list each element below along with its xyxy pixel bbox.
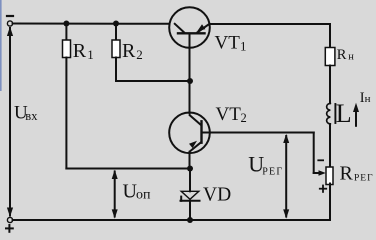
Uvx arrowhead down: [7, 208, 13, 217]
In arrowhead: [353, 103, 359, 112]
input terminal top: [7, 21, 12, 26]
transistor VT2: [169, 113, 210, 154]
wire VT2 emitter down: [189, 152, 191, 169]
node VT1 base junction: [187, 78, 193, 84]
svg-text:VT: VT: [216, 104, 242, 125]
Ureg arrowhead up: [283, 134, 289, 143]
wire VD cathode lead: [189, 201, 191, 220]
blue window-edge line: [0, 0, 2, 91]
svg-text:2: 2: [241, 111, 247, 125]
input terminal bottom: [7, 217, 12, 222]
svg-text:н: н: [365, 93, 371, 105]
wire R2 bottom lead: [115, 58, 117, 82]
wire top rail: [13, 23, 170, 25]
inductor L coil: [327, 103, 331, 124]
zener diode VD: [181, 191, 200, 201]
Ureg voltage arrow line: [285, 136, 287, 217]
inductor core bar: [334, 104, 336, 123]
plus sign Rreg: [320, 188, 326, 190]
wire wiper down leg: [313, 133, 315, 174]
Ureg arrowhead down: [283, 209, 289, 218]
wire R1 bottom lead: [65, 58, 67, 169]
wire VD anode lead: [189, 169, 191, 192]
svg-text:VT: VT: [215, 32, 241, 53]
node R2 top: [113, 21, 119, 27]
svg-text:оп: оп: [136, 188, 151, 203]
svg-text:R: R: [337, 47, 347, 63]
svg-text:R: R: [73, 40, 87, 62]
svg-text:R: R: [122, 40, 136, 62]
Uvx arrowhead up: [7, 27, 13, 36]
svg-text:VD: VD: [203, 185, 231, 206]
wire VT1 base to VT2 collector: [189, 81, 191, 114]
wire VT2 base to wiper: [210, 132, 314, 134]
Uop arrowhead up: [112, 170, 118, 179]
svg-text:L: L: [336, 99, 352, 128]
svg-text:РЕГ: РЕГ: [262, 167, 283, 178]
wire VT1 emitter to right: [210, 23, 330, 25]
In current arrow: [355, 107, 357, 126]
svg-text:1: 1: [240, 39, 247, 54]
wiper arrow line: [314, 172, 320, 174]
svg-text:н: н: [348, 52, 354, 63]
resistor R1: [63, 40, 71, 58]
resistor RH: [325, 48, 335, 66]
wire right branch down to RH: [329, 24, 331, 48]
wiper arrowhead: [319, 170, 326, 176]
minus sign Rreg: [318, 159, 323, 161]
Uop arrowhead down: [112, 209, 118, 218]
node VD bottom: [187, 217, 193, 223]
wire inductor to Rreg: [329, 124, 331, 167]
Uop voltage arrow line: [114, 172, 116, 217]
wire R1 top lead: [65, 24, 67, 41]
wire R2 to VT1 base: [116, 80, 190, 82]
wire R1 to VD node: [66, 168, 190, 170]
Uvx voltage arrow line: [9, 28, 11, 216]
svg-text:РЕГ: РЕГ: [354, 174, 374, 184]
svg-text:R: R: [340, 163, 354, 185]
node R1 top: [63, 21, 69, 27]
wire RH to inductor: [329, 66, 331, 104]
wire bottom rail: [13, 219, 330, 221]
rheostat Rreg: [326, 167, 333, 185]
minus sign input top: [7, 15, 13, 17]
resistor R2: [112, 40, 120, 58]
wire Rreg bottom lead: [329, 184, 331, 221]
svg-text:2: 2: [136, 47, 143, 62]
wire R2 top lead: [115, 24, 117, 41]
svg-text:1: 1: [87, 47, 94, 62]
node VT2 emitter junction: [187, 166, 193, 172]
transistor VT1: [169, 7, 210, 80]
plus sign input bottom: [6, 227, 13, 229]
svg-text:вх: вх: [25, 109, 38, 123]
